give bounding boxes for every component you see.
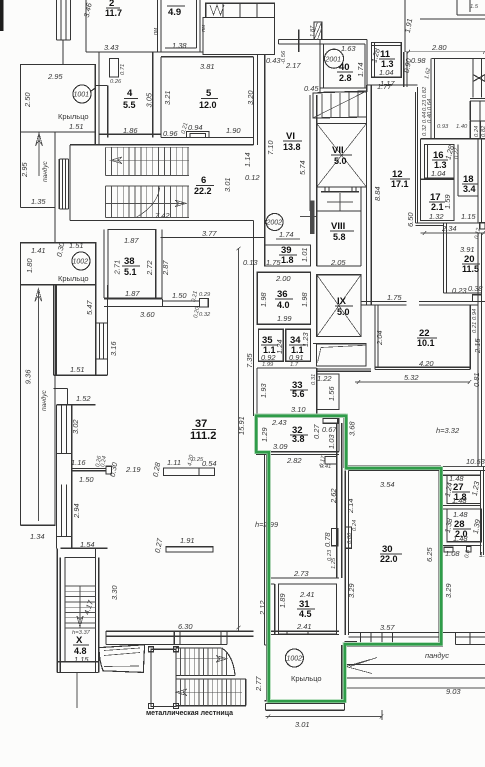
wall below window to porch bbox=[62, 40, 64, 65]
svg-text:3.54: 3.54 bbox=[380, 480, 395, 489]
step notch bbox=[54, 375, 96, 405]
ramp arrow bbox=[36, 133, 43, 176]
svg-text:3.20: 3.20 bbox=[246, 90, 255, 105]
door opening dash bbox=[300, 216, 317, 218]
svg-text:2.73: 2.73 bbox=[293, 569, 309, 578]
threshold below bbox=[325, 457, 337, 464]
svg-text:4.0: 4.0 bbox=[277, 300, 290, 310]
svg-text:5.1: 5.1 bbox=[124, 267, 137, 277]
svg-text:7.42: 7.42 bbox=[155, 211, 170, 220]
svg-text:h=3.32: h=3.32 bbox=[436, 426, 460, 435]
svg-text:5.47: 5.47 bbox=[85, 300, 94, 315]
svg-text:3.8: 3.8 bbox=[292, 434, 305, 444]
svg-text:1.14: 1.14 bbox=[243, 152, 252, 167]
rooms 4,5 bottom wall with door bbox=[99, 134, 254, 137]
wall under rooms 2,4.9 bbox=[86, 48, 203, 52]
svg-text:3.05: 3.05 bbox=[145, 92, 154, 107]
svg-text:1.25: 1.25 bbox=[331, 557, 337, 569]
svg-text:1.48: 1.48 bbox=[453, 510, 468, 519]
svg-text:0.27: 0.27 bbox=[312, 424, 321, 439]
svg-text:4.20: 4.20 bbox=[419, 359, 434, 368]
room 4 left wall bbox=[99, 52, 108, 138]
window niche room 4 bbox=[110, 59, 119, 78]
svg-text:0.23: 0.23 bbox=[452, 286, 467, 295]
svg-text:2.41: 2.41 bbox=[296, 622, 312, 631]
svg-text:1.75: 1.75 bbox=[387, 293, 402, 302]
svg-text:1002: 1002 bbox=[73, 259, 89, 266]
svg-text:9.03: 9.03 bbox=[446, 687, 461, 696]
svg-text:2.14: 2.14 bbox=[346, 498, 355, 514]
svg-text:VII: VII bbox=[332, 145, 344, 156]
room 20 bbox=[415, 223, 485, 293]
room 31 bottom window band bbox=[271, 631, 339, 634]
svg-text:0.94: 0.94 bbox=[472, 309, 478, 320]
svg-text:0.22: 0.22 bbox=[454, 147, 460, 159]
svg-text:2.77: 2.77 bbox=[254, 676, 263, 692]
thick wall below room 38 bbox=[104, 299, 162, 307]
svg-text:2.1: 2.1 bbox=[431, 202, 444, 212]
scan mark top-left bbox=[0, 0, 4, 31]
svg-text:3.16: 3.16 bbox=[109, 341, 118, 356]
svg-text:3.09: 3.09 bbox=[273, 442, 288, 451]
svg-text:0.40 0.64: 0.40 0.64 bbox=[427, 99, 433, 123]
svg-text:1.04: 1.04 bbox=[431, 169, 446, 178]
svg-text:3.10: 3.10 bbox=[291, 405, 306, 414]
svg-text:1.87: 1.87 bbox=[310, 25, 316, 37]
svg-text:9.36: 9.36 bbox=[24, 369, 33, 384]
room 38 bbox=[108, 230, 156, 298]
stamp circle 1001 bbox=[73, 85, 91, 103]
svg-text:1.41: 1.41 bbox=[31, 246, 46, 255]
svg-text:37: 37 bbox=[195, 418, 207, 430]
svg-text:пандус: пандус bbox=[425, 651, 449, 660]
svg-text:1.15: 1.15 bbox=[74, 655, 89, 664]
svg-text:2.72: 2.72 bbox=[145, 260, 154, 276]
svg-text:1.74: 1.74 bbox=[356, 62, 365, 77]
stub 2 bbox=[164, 468, 215, 476]
dark wall fill bbox=[310, 200, 314, 233]
svg-text:3.01: 3.01 bbox=[223, 177, 232, 192]
svg-text:0.81: 0.81 bbox=[472, 372, 481, 387]
wall between 4 and 5 bbox=[153, 52, 161, 138]
svg-text:1002: 1002 bbox=[287, 656, 303, 663]
window band left outer wall top bbox=[57, 0, 71, 40]
svg-text:5.8: 5.8 bbox=[333, 232, 346, 242]
balcony block with window row bbox=[203, 18, 275, 55]
room 31 top wall bbox=[270, 578, 339, 584]
svg-text:6.50: 6.50 bbox=[406, 212, 415, 227]
room 2 / 4.9 divider walls bbox=[158, 0, 201, 52]
svg-text:6.25: 6.25 bbox=[425, 547, 434, 562]
svg-text:1.77: 1.77 bbox=[377, 82, 392, 91]
svg-text:1.22: 1.22 bbox=[317, 374, 332, 383]
svg-text:3.29: 3.29 bbox=[347, 583, 356, 598]
svg-text:1.32: 1.32 bbox=[429, 212, 444, 221]
svg-text:1.34: 1.34 bbox=[30, 532, 45, 541]
svg-text:VI: VI bbox=[286, 131, 295, 142]
stamp circle 2002 bbox=[266, 214, 283, 231]
svg-text:0.93: 0.93 bbox=[437, 124, 449, 130]
svg-text:2002: 2002 bbox=[266, 220, 283, 227]
svg-text:2.12: 2.12 bbox=[258, 600, 267, 616]
svg-text:0.91: 0.91 bbox=[289, 353, 304, 362]
svg-text:22.0: 22.0 bbox=[380, 554, 398, 564]
svg-text:5.32: 5.32 bbox=[404, 373, 419, 382]
svg-text:2.17: 2.17 bbox=[285, 61, 301, 70]
svg-text:1.03: 1.03 bbox=[327, 434, 336, 449]
svg-text:0.41: 0.41 bbox=[320, 464, 331, 470]
svg-text:0.29: 0.29 bbox=[199, 292, 211, 298]
svg-text:1.93: 1.93 bbox=[259, 383, 268, 398]
svg-text:7.35: 7.35 bbox=[245, 353, 254, 368]
svg-text:металлическая лестница: металлическая лестница bbox=[146, 710, 233, 717]
svg-text:1001: 1001 bbox=[74, 92, 90, 99]
svg-text:3.29: 3.29 bbox=[444, 583, 453, 598]
svg-text:1.99: 1.99 bbox=[262, 362, 274, 368]
svg-text:2.82: 2.82 bbox=[286, 456, 302, 465]
svg-text:0.13: 0.13 bbox=[243, 258, 258, 267]
svg-text:40: 40 bbox=[339, 62, 350, 73]
svg-text:2.80: 2.80 bbox=[431, 43, 447, 52]
svg-text:11.7: 11.7 bbox=[105, 8, 122, 18]
svg-text:1.24: 1.24 bbox=[275, 339, 284, 354]
svg-text:10.53: 10.53 bbox=[466, 457, 485, 466]
svg-text:2.19: 2.19 bbox=[125, 465, 141, 474]
window band 2 bbox=[56, 484, 71, 536]
svg-text:36: 36 bbox=[277, 289, 288, 300]
svg-text:1.98: 1.98 bbox=[259, 292, 268, 307]
svg-text:1.75: 1.75 bbox=[266, 258, 281, 267]
svg-text:3.77: 3.77 bbox=[202, 229, 217, 238]
svg-text:6: 6 bbox=[201, 175, 206, 186]
room 5 right wall bbox=[254, 55, 258, 145]
svg-text:1.6: 1.6 bbox=[479, 550, 485, 559]
up arrow (left) bbox=[111, 157, 189, 164]
svg-text:17.1: 17.1 bbox=[391, 179, 409, 189]
svg-text:0.24: 0.24 bbox=[352, 520, 358, 531]
svg-text:1.08: 1.08 bbox=[445, 549, 460, 558]
svg-text:2.00: 2.00 bbox=[275, 274, 291, 283]
svg-text:2.8: 2.8 bbox=[339, 73, 352, 83]
svg-text:3.4: 3.4 bbox=[463, 184, 476, 194]
svg-text:1.90: 1.90 bbox=[226, 126, 241, 135]
svg-text:1.11: 1.11 bbox=[167, 458, 181, 467]
svg-text:X: X bbox=[76, 635, 83, 646]
svg-text:1.51: 1.51 bbox=[69, 241, 84, 250]
svg-text:пм: пм bbox=[153, 28, 159, 35]
svg-text:1.52: 1.52 bbox=[76, 394, 91, 403]
svg-text:1.16: 1.16 bbox=[71, 458, 86, 467]
svg-text:1.35: 1.35 bbox=[31, 197, 46, 206]
bowtie window on right wall bbox=[473, 75, 485, 82]
svg-text:111.2: 111.2 bbox=[190, 430, 216, 442]
stub 1 bbox=[72, 468, 106, 470]
svg-text:2.34: 2.34 bbox=[441, 224, 457, 233]
svg-text:1.87: 1.87 bbox=[125, 289, 140, 298]
svg-text:1.50: 1.50 bbox=[172, 291, 187, 300]
W hatch glyph in window bbox=[210, 5, 224, 15]
svg-text:0.43: 0.43 bbox=[266, 56, 281, 65]
svg-text:0.45: 0.45 bbox=[304, 84, 319, 93]
svg-text:0.98: 0.98 bbox=[411, 56, 426, 65]
15.91 dim line bbox=[237, 247, 241, 631]
svg-text:1.38: 1.38 bbox=[172, 41, 187, 50]
svg-text:12.0: 12.0 bbox=[199, 100, 217, 110]
svg-text:0.78: 0.78 bbox=[323, 532, 332, 547]
svg-text:5.6: 5.6 bbox=[292, 389, 305, 399]
svg-text:1.15: 1.15 bbox=[461, 212, 476, 221]
svg-text:3.43: 3.43 bbox=[104, 43, 119, 52]
svg-text:1.8: 1.8 bbox=[281, 255, 294, 265]
porch outline bbox=[21, 65, 96, 133]
svg-text:3.60: 3.60 bbox=[140, 310, 155, 319]
svg-text:1.01: 1.01 bbox=[300, 247, 309, 262]
svg-text:2.04: 2.04 bbox=[375, 330, 384, 346]
svg-text:1.87: 1.87 bbox=[124, 236, 139, 245]
svg-text:2.50: 2.50 bbox=[23, 92, 32, 108]
svg-text:1.98: 1.98 bbox=[300, 292, 309, 307]
svg-text:0.67: 0.67 bbox=[322, 425, 337, 434]
svg-text:3.81: 3.81 bbox=[200, 62, 215, 71]
svg-text:0.96: 0.96 bbox=[163, 129, 178, 138]
svg-text:1.99: 1.99 bbox=[277, 314, 292, 323]
stair block outline bbox=[70, 145, 254, 221]
svg-text:4: 4 bbox=[127, 88, 133, 99]
svg-text:3.91: 3.91 bbox=[460, 245, 475, 254]
svg-text:3.01: 3.01 bbox=[295, 720, 310, 729]
svg-text:1.56: 1.56 bbox=[327, 386, 336, 401]
svg-text:3.30: 3.30 bbox=[110, 585, 119, 600]
corridor/duct wall left of room 30 bbox=[337, 423, 342, 578]
svg-text:1.51: 1.51 bbox=[69, 122, 84, 131]
svg-text:0.38: 0.38 bbox=[468, 284, 483, 293]
svg-text:3.68: 3.68 bbox=[348, 421, 357, 436]
svg-text:1.23: 1.23 bbox=[301, 332, 310, 347]
svg-text:-0.56: -0.56 bbox=[281, 50, 287, 64]
svg-text:8.84: 8.84 bbox=[373, 186, 382, 201]
room 5 top wall bbox=[161, 56, 254, 58]
svg-text:3.21: 3.21 bbox=[163, 90, 172, 105]
top-right corner fragments bbox=[420, 0, 485, 19]
pier wall with window (3.16) bbox=[96, 285, 108, 323]
svg-text:1.7: 1.7 bbox=[290, 362, 299, 368]
svg-text:7.10: 7.10 bbox=[266, 140, 275, 155]
svg-text:1.04: 1.04 bbox=[379, 68, 394, 77]
svg-text:1.48: 1.48 bbox=[453, 534, 468, 543]
entry stub wall bbox=[298, 30, 300, 52]
svg-text:Крыльцо: Крыльцо bbox=[291, 674, 322, 683]
svg-text:10.1: 10.1 bbox=[417, 338, 435, 348]
svg-text:0.82: 0.82 bbox=[481, 125, 485, 137]
svg-text:2.05: 2.05 bbox=[330, 258, 346, 267]
stair walk line curve bbox=[136, 186, 160, 218]
svg-text:11.5: 11.5 bbox=[462, 264, 479, 274]
svg-text:1.74: 1.74 bbox=[279, 230, 294, 239]
svg-text:3.02: 3.02 bbox=[71, 419, 80, 434]
svg-text:1.51: 1.51 bbox=[70, 365, 85, 374]
room 2 left wall bbox=[85, 0, 87, 52]
svg-text:5: 5 bbox=[206, 88, 212, 99]
svg-text:4.9: 4.9 bbox=[168, 7, 181, 18]
svg-text:2.43: 2.43 bbox=[271, 418, 287, 427]
svg-text:0.32: 0.32 bbox=[199, 312, 211, 318]
svg-text:13.8: 13.8 bbox=[283, 142, 301, 152]
pier bbox=[56, 454, 71, 485]
svg-text:1.5: 1.5 bbox=[470, 4, 479, 10]
svg-text:2.71: 2.71 bbox=[112, 260, 121, 276]
svg-text:пм: пм bbox=[201, 25, 207, 32]
svg-text:5.0: 5.0 bbox=[334, 156, 347, 166]
svg-text:0.80: 0.80 bbox=[347, 532, 353, 544]
svg-text:1.48: 1.48 bbox=[452, 496, 467, 505]
svg-text:3.57: 3.57 bbox=[380, 623, 395, 632]
svg-text:Крыльцо: Крыльцо bbox=[58, 274, 89, 283]
svg-text:4.5: 4.5 bbox=[299, 609, 312, 619]
svg-text:Крыльцо: Крыльцо bbox=[58, 112, 89, 121]
svg-text:1.40: 1.40 bbox=[456, 124, 468, 130]
svg-text:VIII: VIII bbox=[331, 221, 345, 232]
svg-text:1.54: 1.54 bbox=[80, 540, 95, 549]
svg-text:0.31: 0.31 bbox=[311, 374, 317, 385]
svg-text:5.0: 5.0 bbox=[337, 307, 350, 317]
svg-text:1.63: 1.63 bbox=[341, 44, 356, 53]
svg-text:1.59: 1.59 bbox=[443, 194, 452, 209]
svg-text:1.91: 1.91 bbox=[180, 536, 195, 545]
svg-text:6.30: 6.30 bbox=[178, 622, 193, 631]
right outer wall bbox=[470, 59, 485, 467]
svg-text:1.89: 1.89 bbox=[278, 593, 287, 608]
svg-text:2.87: 2.87 bbox=[161, 260, 170, 276]
svg-text:IX: IX bbox=[337, 296, 347, 307]
stair hatch bbox=[65, 586, 96, 628]
svg-text:0.24: 0.24 bbox=[474, 126, 480, 137]
svg-text:0.21: 0.21 bbox=[472, 322, 478, 333]
wall right of porch bbox=[95, 85, 107, 144]
svg-text:2.41: 2.41 bbox=[299, 590, 315, 599]
ramp arrow chevrons bbox=[346, 658, 377, 674]
corridor stub wall with end box bbox=[162, 301, 199, 307]
svg-text:0.71: 0.71 bbox=[120, 64, 126, 75]
svg-text:38: 38 bbox=[124, 256, 135, 267]
window band 1 bbox=[56, 405, 71, 454]
svg-text:5.74: 5.74 bbox=[298, 160, 307, 175]
entrance stair wedge bbox=[313, 91, 367, 118]
svg-text:1.80: 1.80 bbox=[25, 258, 34, 273]
svg-text:1.29: 1.29 bbox=[260, 427, 269, 442]
svg-text:2.95: 2.95 bbox=[20, 162, 29, 178]
svg-text:5.5: 5.5 bbox=[123, 100, 136, 110]
lower flight hatch bbox=[106, 186, 190, 218]
svg-text:2.95: 2.95 bbox=[47, 72, 63, 81]
svg-text:15.91: 15.91 bbox=[237, 416, 246, 435]
left exterior window between porches bbox=[59, 159, 68, 209]
svg-text:пандус: пандус bbox=[41, 160, 49, 182]
svg-text:0.26: 0.26 bbox=[110, 79, 122, 85]
upper flight hatch bbox=[106, 147, 190, 175]
svg-text:2.94: 2.94 bbox=[72, 503, 81, 519]
svg-text:пандус: пандус bbox=[40, 389, 48, 411]
svg-text:1.50: 1.50 bbox=[79, 475, 94, 484]
pier to stair bbox=[56, 536, 107, 548]
black walls under green highlight bbox=[255, 414, 443, 701]
svg-text:22.2: 22.2 bbox=[194, 186, 212, 196]
svg-text:1.86: 1.86 bbox=[123, 126, 138, 135]
room 30 bottom wall + windows bbox=[348, 632, 443, 644]
svg-text:2.15: 2.15 bbox=[473, 338, 482, 354]
stub 3 bbox=[166, 547, 213, 552]
svg-text:0.94: 0.94 bbox=[188, 123, 203, 132]
svg-text:0.54: 0.54 bbox=[202, 459, 217, 468]
svg-text:0.12: 0.12 bbox=[245, 173, 260, 182]
